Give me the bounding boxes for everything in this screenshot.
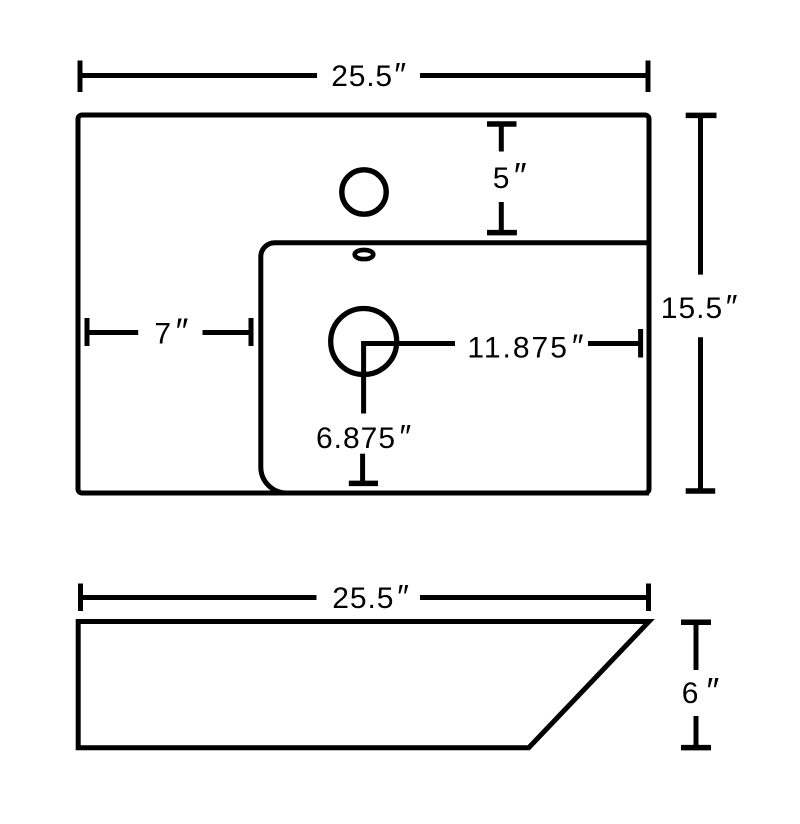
overflow hole ellipse — [355, 250, 374, 259]
svg-text:25.5″: 25.5″ — [331, 56, 407, 93]
dimension 25.5 bottom: line left segment — [81, 595, 317, 600]
svg-text:15.5″: 15.5″ — [661, 288, 739, 325]
basin rounded outline — [261, 243, 649, 493]
dimension 7: line right segment — [203, 330, 252, 335]
dimension 15.5: lower line — [698, 337, 703, 491]
dimension 5: bottom T bar — [487, 230, 517, 236]
dimension 15.5: top T bar — [686, 113, 717, 119]
counter top outline (top view) — [78, 115, 649, 493]
dimension 25.5 bottom: label — [332, 578, 410, 615]
dimension 6.875: lower stub — [360, 454, 365, 484]
dimension 6: upper line — [694, 622, 699, 670]
dimension 11.875: right tick — [638, 329, 643, 358]
dimension 25.5 top: label — [331, 56, 407, 93]
dimension 5: label — [493, 155, 527, 196]
dimension 6.875: bottom T bar — [349, 481, 378, 487]
dimension 15.5: bottom T bar — [686, 488, 716, 494]
drain center cross wires — [364, 344, 455, 414]
dimension 7: right tick — [249, 318, 254, 346]
dimension 6: lower line — [694, 716, 699, 748]
svg-text:11.875″: 11.875″ — [467, 328, 585, 365]
dimension 5: lower stub — [499, 202, 504, 233]
dimension 11.875: line right segment — [588, 341, 641, 346]
dimension 25.5 bottom: line right segment — [420, 595, 649, 600]
dimension 7: left tick — [85, 318, 90, 346]
faucet hole circle — [342, 170, 386, 214]
dimension 6: label — [682, 670, 720, 711]
dimension 7: label — [154, 310, 188, 351]
dimension 15.5: label — [661, 288, 739, 325]
svg-text:25.5″: 25.5″ — [332, 578, 410, 615]
dimension 6: top T bar — [681, 620, 711, 626]
dimension 5: upper stub — [499, 124, 504, 152]
drain hole circle — [331, 309, 397, 375]
dimension 15.5: upper line — [698, 115, 703, 274]
dimension 7: line left segment — [87, 330, 138, 335]
dimension 25.5 top: line left segment — [80, 73, 317, 78]
side view outline (trapezoid) — [78, 622, 649, 748]
dimension 6: bottom T bar — [681, 745, 711, 751]
dimension 25.5 bottom: left tick — [78, 584, 83, 612]
dimension 5: top T bar — [487, 121, 517, 127]
dimension 25.5 bottom: right tick — [646, 584, 651, 612]
dimension 11.875: label — [467, 328, 585, 365]
dimension 6.875: label — [316, 418, 412, 455]
dimension 25.5 top: right tick — [646, 61, 651, 93]
dimension 25.5 top: left tick — [78, 61, 83, 93]
dimension 25.5 top: line right segment — [420, 73, 648, 78]
